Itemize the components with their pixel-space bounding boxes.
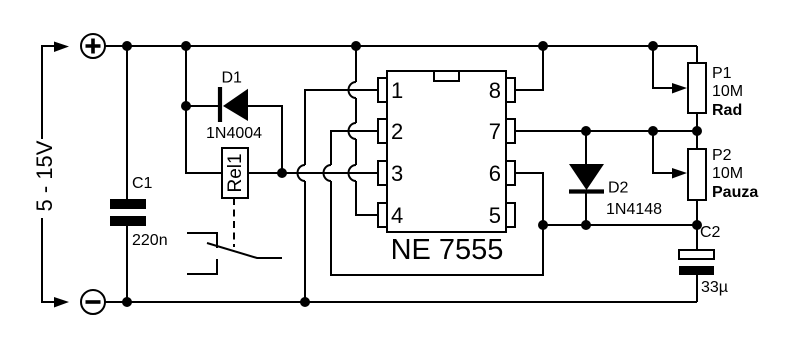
wire D2 lower lead bbox=[585, 192, 587, 225]
wire P1 bottom lead bbox=[696, 113, 698, 131]
diode D2 triangle bbox=[569, 164, 604, 190]
svg-text:10M: 10M bbox=[712, 83, 743, 100]
wire P1 top lead bbox=[696, 46, 698, 63]
supply bracket arrow bottom bbox=[54, 297, 69, 308]
diode D2 cathode bar bbox=[569, 189, 604, 193]
label Pauza bbox=[712, 184, 758, 201]
node D1 branch rail junction bbox=[181, 41, 191, 51]
label 220n bbox=[132, 232, 168, 249]
potentiometer P2 body bbox=[688, 149, 706, 200]
relay actuator dashed link bbox=[233, 198, 235, 247]
label 1N4148 bbox=[606, 201, 662, 218]
svg-text:10M: 10M bbox=[712, 165, 743, 182]
wire pin3 output bbox=[282, 172, 378, 174]
diode D1 cathode bar bbox=[218, 87, 222, 122]
svg-text:Pauza: Pauza bbox=[712, 184, 758, 201]
arrow P1 wiper bbox=[672, 83, 687, 94]
pin number 1 bbox=[391, 78, 403, 103]
wire C1 upper lead bbox=[126, 46, 128, 199]
svg-text:4: 4 bbox=[391, 203, 403, 228]
svg-text:5 - 15V: 5 - 15V bbox=[32, 140, 57, 211]
IC U1 notch bbox=[434, 71, 459, 81]
pin box 2 bbox=[378, 119, 387, 143]
label 1N4004 bbox=[206, 125, 262, 142]
node P1 bottom junction bbox=[692, 126, 702, 136]
svg-text:7: 7 bbox=[489, 119, 501, 144]
label Rad bbox=[712, 102, 742, 119]
pin box 5 bbox=[506, 203, 515, 227]
supply bracket line upper bbox=[42, 46, 54, 139]
svg-text:1: 1 bbox=[391, 78, 403, 103]
node pin1 ground rail junction bbox=[300, 297, 310, 307]
svg-text:D2: D2 bbox=[608, 180, 629, 197]
pin number 5 bbox=[489, 203, 501, 228]
potentiometer P1 body bbox=[688, 63, 706, 113]
node C2 top junction bbox=[692, 220, 702, 230]
relay contact fixed lower bbox=[187, 259, 217, 274]
label P1 bbox=[712, 65, 732, 82]
pin number 6 bbox=[489, 161, 501, 186]
label D1 bbox=[222, 70, 243, 87]
pin number 4 bbox=[391, 203, 403, 228]
node P1 wiper rail junction bbox=[648, 41, 658, 51]
svg-text:2: 2 bbox=[391, 119, 403, 144]
wire P1 wiper bbox=[653, 46, 672, 88]
hop pin4 vertical over pin3 wire bbox=[349, 165, 356, 181]
node D2 bottom junction bbox=[581, 220, 591, 230]
svg-text:8: 8 bbox=[489, 78, 501, 103]
wire C1 lower lead bbox=[126, 226, 128, 302]
label 33u bbox=[701, 279, 728, 296]
pin number 2 bbox=[391, 119, 403, 144]
svg-text:220n: 220n bbox=[132, 232, 168, 249]
svg-text:D1: D1 bbox=[222, 70, 243, 87]
supply bracket line lower bbox=[42, 218, 54, 302]
pin number 3 bbox=[391, 161, 403, 186]
label D2 bbox=[608, 180, 629, 197]
label C1 bbox=[132, 175, 153, 192]
node C1 top rail junction bbox=[122, 41, 132, 51]
hop pin2 vertical over pin3 wire bbox=[324, 165, 332, 181]
wire P2 top lead bbox=[696, 131, 698, 149]
wire pin8 to rail bbox=[515, 46, 543, 90]
capacitor C2 negative plate bbox=[679, 266, 714, 275]
pin box 7 bbox=[506, 119, 515, 143]
pin box 3 bbox=[378, 161, 387, 185]
label P2 10M bbox=[712, 165, 743, 182]
diode D1 triangle bbox=[223, 89, 248, 121]
wire C2 lower lead bbox=[696, 275, 698, 302]
node D2 top junction bbox=[581, 126, 591, 136]
svg-text:6: 6 bbox=[489, 161, 501, 186]
relay contact fixed upper bbox=[187, 233, 217, 248]
pin number 7 bbox=[489, 119, 501, 144]
relay contact arm bbox=[207, 243, 282, 258]
label 5 - 15V bbox=[32, 140, 57, 211]
label NE 7555 bbox=[391, 234, 504, 266]
arrow P2 wiper bbox=[672, 168, 687, 179]
supply bracket arrow top bbox=[54, 42, 69, 53]
svg-text:Rel1: Rel1 bbox=[225, 153, 246, 192]
hop pin4 vertical over pin2 wire bbox=[349, 123, 356, 139]
node C1 bottom rail junction bbox=[122, 297, 132, 307]
wire C2 upper lead bbox=[696, 225, 698, 250]
pin box 6 bbox=[506, 161, 515, 185]
terminal plus bbox=[81, 34, 105, 58]
wire P2 wiper bbox=[653, 131, 672, 173]
pin box 4 bbox=[378, 203, 387, 227]
svg-text:P1: P1 bbox=[712, 65, 732, 82]
wire rail to D1 anode bbox=[185, 46, 187, 106]
wire pin6 down to threshold node bbox=[515, 173, 543, 225]
node pin4 rail junction bbox=[351, 41, 361, 51]
wire Rel1 right to node bbox=[248, 172, 282, 174]
wire D1 junction down to Rel1 left bbox=[186, 106, 222, 173]
hop pin4 vertical over pin1 wire bbox=[349, 82, 356, 98]
label P2 bbox=[712, 147, 732, 164]
svg-text:3: 3 bbox=[391, 161, 403, 186]
terminal minus bbox=[81, 290, 105, 314]
node P2 wiper junction bbox=[648, 126, 658, 136]
wire pin7 row bbox=[515, 130, 697, 132]
node D1 anode junction bbox=[181, 101, 191, 111]
wire bottom negative rail bbox=[105, 301, 697, 303]
svg-text:Rad: Rad bbox=[712, 102, 742, 119]
label P1 10M bbox=[712, 83, 743, 100]
svg-text:5: 5 bbox=[489, 203, 501, 228]
wire P2 bottom lead bbox=[696, 200, 698, 225]
node pin8 rail junction bbox=[538, 41, 548, 51]
wire D1 cathode lead bbox=[186, 105, 218, 107]
svg-text:1N4148: 1N4148 bbox=[606, 201, 662, 218]
node threshold junction bbox=[538, 220, 548, 230]
relay coil Rel1 bbox=[222, 148, 248, 198]
wire top positive rail bbox=[105, 45, 697, 47]
svg-text:33µ: 33µ bbox=[701, 279, 728, 296]
pin box 1 bbox=[378, 78, 387, 102]
capacitor C1 bbox=[110, 199, 146, 226]
svg-text:NE 7555: NE 7555 bbox=[391, 234, 504, 266]
svg-text:C2: C2 bbox=[700, 224, 721, 241]
wire D2 upper lead bbox=[585, 131, 587, 164]
svg-text:1N4004: 1N4004 bbox=[206, 125, 262, 142]
wire pin4 to rail with hops bbox=[356, 46, 378, 215]
wire threshold row bbox=[543, 224, 697, 226]
wire pin2 loop left bbox=[331, 131, 543, 275]
wire pin1 to ground with hop at x305 bbox=[305, 90, 378, 302]
pin number 8 bbox=[489, 78, 501, 103]
IC U1 body bbox=[387, 71, 506, 232]
capacitor C2 positive plate bbox=[679, 250, 714, 259]
node Rel1 output junction bbox=[277, 168, 287, 178]
pin box 8 bbox=[506, 78, 515, 102]
svg-text:C1: C1 bbox=[132, 175, 153, 192]
hop pin1 vertical over pin3 wire bbox=[298, 165, 306, 181]
wire D1 anode to corner down to Rel1 right node bbox=[248, 106, 282, 173]
label C2 bbox=[700, 224, 721, 241]
svg-text:P2: P2 bbox=[712, 147, 732, 164]
